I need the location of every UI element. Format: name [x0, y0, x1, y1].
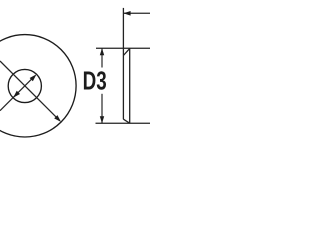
washer front view: inner hole circle	[8, 69, 41, 102]
side view: bottom edge + bottom extension line (horizontal)	[96, 122, 151, 124]
outer diameter dimension line (45deg, top-left to bottom-right)	[0, 61, 57, 118]
D3 dimension up arrowhead	[100, 48, 104, 55]
svg-text:D3: D3	[83, 67, 107, 96]
inner diameter dimension line (bottom-left leader to upper-right, 45deg)	[0, 77, 34, 111]
D3 vertical dimension line upper segment	[101, 48, 103, 67]
thickness dimension left arrowhead	[123, 11, 130, 16]
side view: left face edge + extension line up (vertical)	[122, 8, 124, 119]
side view: bottom-left bevel	[123, 119, 129, 123]
thickness dimension line (top right, horizontal)	[124, 12, 150, 14]
D3 dimension down arrowhead	[100, 116, 104, 123]
outer diameter arrowhead (points down-right onto outer circle)	[54, 115, 61, 122]
D3 label text	[83, 67, 107, 96]
washer front view: outer circle	[0, 35, 76, 137]
D3 vertical dimension line lower segment	[101, 94, 103, 123]
side view: right edge of face sliver (vertical)	[129, 48, 131, 123]
side view: top edge + top extension line (horizontal)	[96, 47, 150, 49]
inner diameter arrowhead lower-left (points down-left onto hole circle)	[13, 91, 20, 98]
side view: top-left bevel	[123, 49, 129, 56]
inner diameter arrowhead upper-right (points up-right onto hole circle)	[30, 74, 37, 81]
